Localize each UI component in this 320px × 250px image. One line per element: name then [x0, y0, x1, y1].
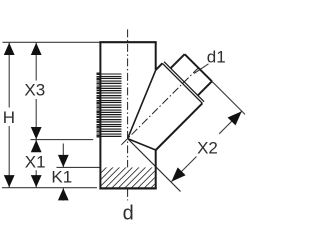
K1 top (pointing down) — [58, 155, 69, 167]
X1 bottom — [31, 175, 42, 187]
dimension H line — [8, 42, 10, 107]
H bottom — [4, 175, 15, 187]
d1 leader tick — [194, 64, 209, 74]
svg-text:d: d — [123, 203, 134, 225]
X2 reference line (45 deg through junction) — [128, 139, 181, 192]
X2 dimension line — [171, 157, 196, 182]
svg-text:X2: X2 — [197, 138, 218, 157]
svg-text:K1: K1 — [51, 168, 72, 187]
end face — [185, 54, 212, 81]
svg-text:H: H — [3, 108, 15, 127]
dimension X1 line — [35, 140, 37, 151]
svg-text:X3: X3 — [24, 81, 45, 100]
branch-axis reference line — [31, 139, 94, 141]
branch/pipe intersection lines — [128, 70, 156, 139]
collar ring line 2 — [164, 62, 204, 102]
X1 top — [31, 140, 42, 152]
end-face extension line — [212, 81, 245, 114]
bottom edge — [99, 187, 156, 189]
X3 top — [31, 43, 42, 55]
H top — [4, 43, 15, 55]
top reference line — [3, 41, 100, 43]
stub upper wall — [156, 63, 163, 70]
X2 upper arrow (pointing up-right) — [228, 111, 242, 125]
K1 reference line — [57, 166, 100, 168]
svg-text:d1: d1 — [207, 47, 226, 66]
spigot upper wall — [171, 54, 185, 68]
bottom baseline — [2, 187, 97, 189]
stub lower wall — [156, 103, 203, 150]
dimension X3 line — [35, 42, 37, 80]
right edge lower — [155, 150, 157, 189]
left edge — [99, 42, 101, 188]
K1 bottom (pointing up) — [58, 188, 69, 200]
branch centerline — [121, 66, 200, 145]
dimension K1 tails — [62, 144, 64, 168]
svg-text:X1: X1 — [25, 153, 46, 172]
top edge — [99, 41, 156, 43]
spigot lower wall — [198, 81, 212, 95]
right edge upper — [155, 42, 157, 70]
collar ring line 1 — [162, 63, 202, 103]
X3 bottom — [31, 127, 42, 139]
X2 lower arrow (pointing down-left) — [171, 167, 185, 181]
vertical centerline — [127, 29, 129, 200]
